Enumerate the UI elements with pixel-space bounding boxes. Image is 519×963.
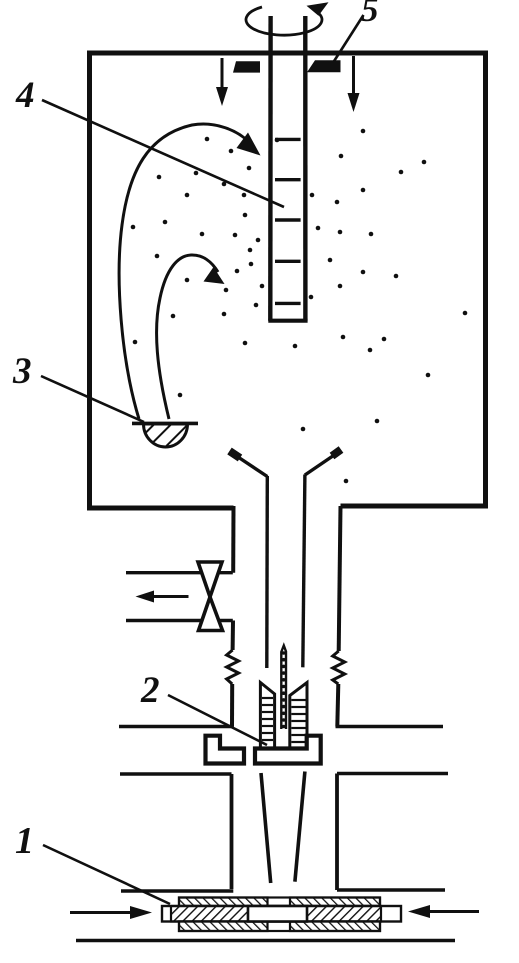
collection cup 3 xyxy=(132,423,198,447)
ion beam dotted column xyxy=(282,651,286,728)
vacuum pipe lower line xyxy=(126,619,233,622)
rotation arrow xyxy=(246,2,329,35)
leader line 1 xyxy=(43,845,170,904)
third stage wall left top xyxy=(120,772,232,776)
leader line 3 xyxy=(41,376,144,422)
tube tick 1 xyxy=(275,138,301,141)
tube tick 4 xyxy=(275,260,301,263)
neck wall right with bellows xyxy=(333,506,345,727)
second stage wall left xyxy=(119,725,234,729)
second stage wall right xyxy=(336,725,444,729)
gas flow arrow right xyxy=(348,56,360,112)
svg-text:4: 4 xyxy=(15,75,35,116)
big circulation arrow xyxy=(119,124,260,419)
gas flow arrow left xyxy=(216,58,228,106)
mounting bracket left piece xyxy=(206,736,245,764)
droplet dots xyxy=(131,129,468,484)
vacuum pipe upper line xyxy=(126,571,233,574)
ion beam cone line left xyxy=(261,773,271,883)
bottom boundary line xyxy=(76,939,455,943)
svg-text:1: 1 xyxy=(15,820,34,862)
third stage wall right vertical xyxy=(335,774,339,891)
leader line 2 xyxy=(168,695,267,745)
drying gas arrow left xyxy=(70,906,152,919)
nebulizer tube 4 xyxy=(268,16,307,321)
tube tick 3 xyxy=(275,218,301,221)
svg-text:2: 2 xyxy=(140,670,160,711)
pump arrow xyxy=(136,591,189,603)
svg-text:3: 3 xyxy=(12,351,32,392)
vacuum chamber wall xyxy=(90,53,486,508)
tube tick 2 xyxy=(275,178,301,181)
neck wall left lower with bellows xyxy=(227,621,239,727)
third stage wall right floor xyxy=(337,888,445,892)
spray deflector bar left xyxy=(233,61,260,72)
tube tick 5 xyxy=(275,302,301,305)
leader line 4 xyxy=(42,100,284,207)
svg-text:5: 5 xyxy=(361,0,379,29)
capillary 2 xyxy=(281,646,286,730)
ion beam cone line right xyxy=(295,772,305,882)
third stage wall right top xyxy=(337,772,448,776)
skimmer entrance funnel right xyxy=(303,450,341,668)
small circulation arrow xyxy=(157,255,225,419)
skimmer cone left xyxy=(260,683,274,748)
neck wall left upper xyxy=(231,506,235,573)
drying gas arrow right xyxy=(408,905,479,918)
spray deflector bar right xyxy=(307,60,341,72)
mounting bracket right piece xyxy=(255,736,321,764)
flange plate assembly 1 xyxy=(162,898,401,932)
aperture insert xyxy=(248,906,307,922)
leader line 5 xyxy=(334,15,364,62)
skimmer cone right xyxy=(290,683,307,748)
skimmer entrance funnel left xyxy=(230,451,268,668)
third stage wall left vertical xyxy=(230,774,234,889)
valve xyxy=(198,562,223,631)
third stage wall left floor xyxy=(121,889,233,893)
